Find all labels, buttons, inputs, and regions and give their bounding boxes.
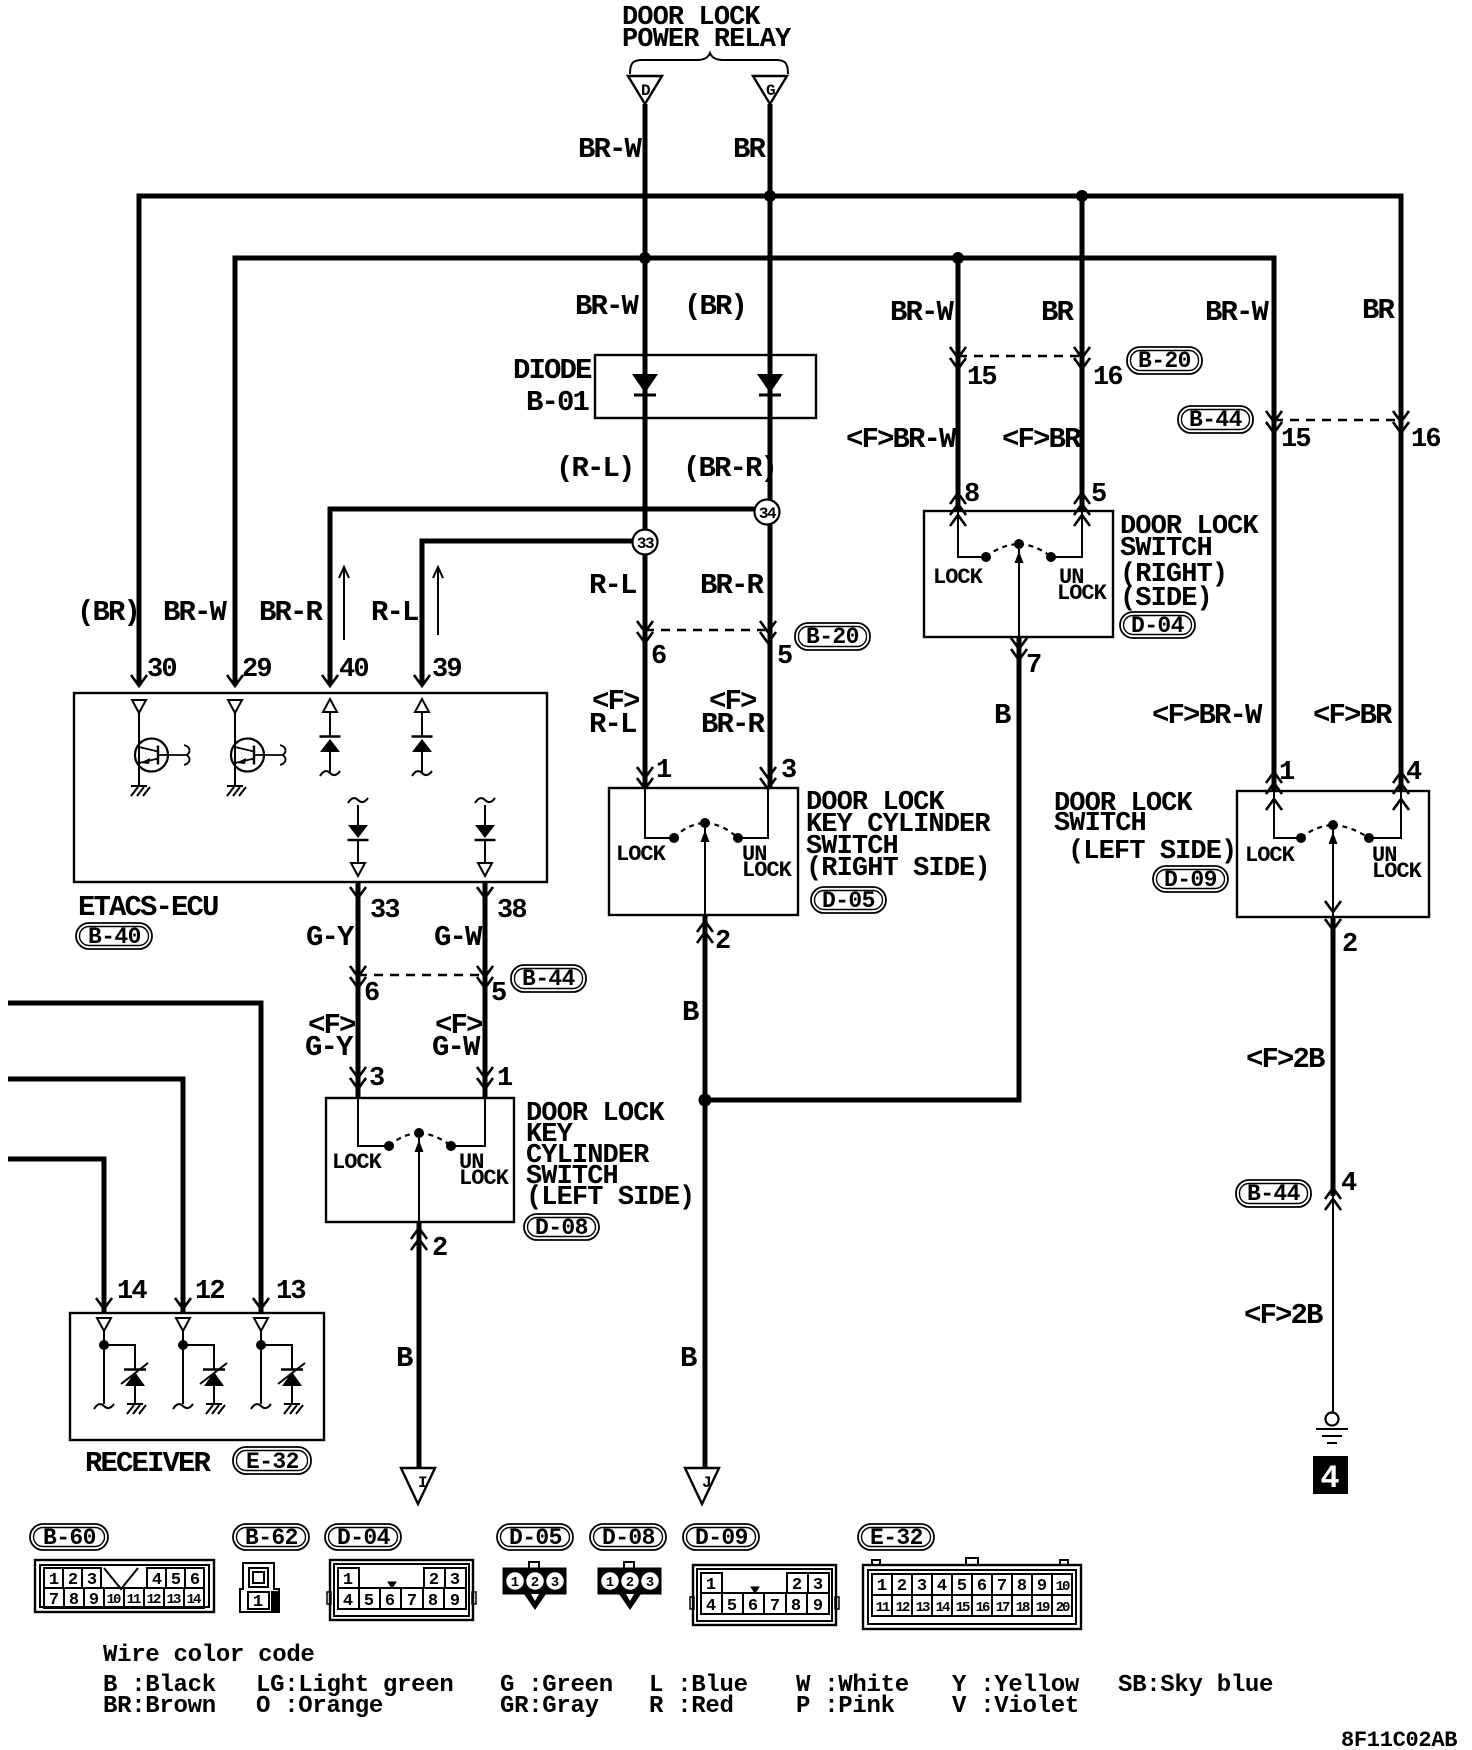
svg-text:5: 5 xyxy=(957,1577,967,1596)
svg-text:D-05: D-05 xyxy=(509,1525,562,1551)
svg-text:G: G xyxy=(766,82,775,100)
svg-text:5: 5 xyxy=(364,1592,374,1611)
svg-text:B: B xyxy=(682,996,699,1029)
svg-text:30: 30 xyxy=(147,655,176,685)
svg-text:11: 11 xyxy=(876,1600,890,1616)
svg-text:15: 15 xyxy=(956,1600,970,1616)
svg-text:G-W: G-W xyxy=(434,921,483,954)
svg-text:10: 10 xyxy=(1056,1579,1070,1595)
svg-text:Wire color code: Wire color code xyxy=(103,1642,315,1669)
svg-text:2: 2 xyxy=(432,1234,447,1264)
svg-text:6: 6 xyxy=(977,1577,987,1596)
svg-text:2: 2 xyxy=(1342,930,1357,960)
svg-text:8: 8 xyxy=(428,1592,438,1611)
svg-text:19: 19 xyxy=(1036,1600,1050,1616)
svg-text:10: 10 xyxy=(107,1592,121,1608)
svg-text:9: 9 xyxy=(1037,1577,1047,1596)
svg-text:O :Orange: O :Orange xyxy=(256,1693,383,1720)
svg-text:D-08: D-08 xyxy=(602,1525,655,1551)
svg-text:3: 3 xyxy=(450,1571,460,1590)
svg-text:B: B xyxy=(680,1342,697,1375)
svg-text:B-60: B-60 xyxy=(43,1525,96,1551)
svg-text:3: 3 xyxy=(917,1577,927,1596)
svg-text:8: 8 xyxy=(964,480,979,510)
svg-text:1: 1 xyxy=(656,756,672,786)
svg-text:ETACS-ECU: ETACS-ECU xyxy=(78,891,218,924)
svg-text:LOCK: LOCK xyxy=(459,1166,510,1191)
svg-text:39: 39 xyxy=(432,655,461,685)
svg-text:5: 5 xyxy=(777,642,792,672)
svg-text:R :Red: R :Red xyxy=(649,1693,734,1720)
svg-text:BR-W: BR-W xyxy=(890,296,955,329)
svg-text:5: 5 xyxy=(491,979,506,1009)
svg-text:<F>BR-W: <F>BR-W xyxy=(1152,699,1263,732)
svg-text:8: 8 xyxy=(69,1591,79,1610)
svg-text:2: 2 xyxy=(68,1571,78,1590)
svg-text:E-32: E-32 xyxy=(870,1525,923,1551)
svg-text:LOCK: LOCK xyxy=(332,1150,383,1175)
svg-text:B-44: B-44 xyxy=(522,966,576,992)
svg-text:<F>BR: <F>BR xyxy=(1002,423,1082,456)
svg-text:5: 5 xyxy=(1091,480,1106,510)
svg-text:3: 3 xyxy=(551,1575,559,1591)
svg-text:E-32: E-32 xyxy=(246,1449,299,1475)
svg-text:1: 1 xyxy=(511,1575,519,1591)
svg-text:R-L: R-L xyxy=(589,708,636,741)
svg-text:14: 14 xyxy=(936,1600,950,1616)
svg-text:BR-W: BR-W xyxy=(1205,296,1270,329)
svg-text:33: 33 xyxy=(637,535,654,553)
svg-text:(LEFT SIDE): (LEFT SIDE) xyxy=(526,1183,694,1213)
svg-text:(BR-R): (BR-R) xyxy=(683,452,776,485)
svg-text:1: 1 xyxy=(49,1571,59,1590)
svg-text:B-44: B-44 xyxy=(1247,1181,1301,1207)
svg-text:GR:Gray: GR:Gray xyxy=(500,1693,599,1720)
svg-text:7: 7 xyxy=(997,1577,1007,1596)
svg-text:1: 1 xyxy=(343,1571,353,1590)
svg-text:BR-W: BR-W xyxy=(578,133,643,166)
svg-text:G-Y: G-Y xyxy=(306,921,355,954)
svg-text:B-20: B-20 xyxy=(806,624,859,650)
svg-text:D-09: D-09 xyxy=(1164,867,1217,893)
svg-text:2: 2 xyxy=(715,927,730,957)
svg-text:13: 13 xyxy=(276,1277,305,1307)
svg-text:LOCK: LOCK xyxy=(742,858,793,883)
svg-text:1: 1 xyxy=(253,1593,263,1612)
svg-text:33: 33 xyxy=(370,896,399,926)
svg-text:G-W: G-W xyxy=(432,1031,481,1064)
svg-text:B-20: B-20 xyxy=(1138,348,1191,374)
svg-text:13: 13 xyxy=(916,1600,930,1616)
svg-text:3: 3 xyxy=(369,1064,384,1094)
svg-text:BR:Brown: BR:Brown xyxy=(103,1693,216,1720)
svg-text:12: 12 xyxy=(195,1277,224,1307)
svg-text:BR-R: BR-R xyxy=(701,708,766,741)
svg-text:V :Violet: V :Violet xyxy=(952,1693,1079,1720)
svg-text:BR-R: BR-R xyxy=(700,569,765,602)
svg-text:<F>2B: <F>2B xyxy=(1244,1299,1323,1332)
svg-text:6: 6 xyxy=(364,979,379,1009)
svg-text:BR-W: BR-W xyxy=(163,596,228,629)
svg-text:LOCK: LOCK xyxy=(1372,859,1423,884)
svg-text:34: 34 xyxy=(759,505,777,523)
svg-text:16: 16 xyxy=(976,1600,990,1616)
svg-text:POWER RELAY: POWER RELAY xyxy=(622,25,792,55)
svg-text:4: 4 xyxy=(937,1577,947,1596)
svg-text:J: J xyxy=(702,1474,710,1492)
svg-text:B: B xyxy=(994,699,1011,732)
svg-text:1: 1 xyxy=(877,1577,887,1596)
svg-text:1: 1 xyxy=(497,1064,513,1094)
svg-text:4: 4 xyxy=(1341,1169,1357,1199)
svg-text:B: B xyxy=(396,1342,413,1375)
svg-text:(BR): (BR) xyxy=(684,290,746,323)
svg-text:RECEIVER: RECEIVER xyxy=(85,1447,212,1480)
svg-text:BR: BR xyxy=(733,133,767,166)
svg-text:29: 29 xyxy=(242,655,271,685)
svg-text:(RIGHT SIDE): (RIGHT SIDE) xyxy=(806,854,990,884)
svg-text:8: 8 xyxy=(1017,1577,1027,1596)
svg-text:LOCK: LOCK xyxy=(616,842,667,867)
svg-text:<F>2B: <F>2B xyxy=(1246,1043,1325,1076)
svg-text:14: 14 xyxy=(187,1592,201,1608)
svg-text:B-01: B-01 xyxy=(526,386,590,419)
svg-text:6: 6 xyxy=(651,642,666,672)
svg-text:38: 38 xyxy=(497,896,526,926)
svg-text:2: 2 xyxy=(531,1575,539,1591)
svg-text:BR-R: BR-R xyxy=(259,596,324,629)
svg-text:6: 6 xyxy=(190,1571,200,1590)
svg-text:15: 15 xyxy=(1281,425,1310,455)
svg-text:D-08: D-08 xyxy=(535,1215,588,1241)
svg-text:DIODE: DIODE xyxy=(513,354,592,387)
svg-text:BR-W: BR-W xyxy=(575,290,640,323)
svg-text:3: 3 xyxy=(781,756,796,786)
svg-text:14: 14 xyxy=(117,1277,147,1307)
svg-text:R-L: R-L xyxy=(589,569,636,602)
svg-text:9: 9 xyxy=(89,1591,99,1610)
svg-text:D-09: D-09 xyxy=(695,1525,748,1551)
svg-text:D: D xyxy=(641,82,650,100)
svg-text:<F>BR: <F>BR xyxy=(1313,699,1393,732)
svg-text:16: 16 xyxy=(1093,363,1122,393)
svg-text:5: 5 xyxy=(171,1571,181,1590)
svg-text:18: 18 xyxy=(1016,1600,1030,1616)
svg-text:3: 3 xyxy=(87,1571,97,1590)
svg-text:BR: BR xyxy=(1041,296,1075,329)
svg-text:D-04: D-04 xyxy=(337,1525,391,1551)
svg-text:1: 1 xyxy=(1279,758,1295,788)
svg-text:SB:Sky blue: SB:Sky blue xyxy=(1118,1672,1273,1699)
svg-text:40: 40 xyxy=(339,655,368,685)
svg-text:12: 12 xyxy=(896,1600,910,1616)
svg-text:LOCK: LOCK xyxy=(1057,581,1108,606)
svg-text:6: 6 xyxy=(385,1592,395,1611)
svg-text:I: I xyxy=(418,1474,427,1492)
svg-text:D-05: D-05 xyxy=(822,888,875,914)
svg-text:B-62: B-62 xyxy=(245,1525,298,1551)
svg-text:15: 15 xyxy=(967,363,996,393)
svg-text:8F11C02AB: 8F11C02AB xyxy=(1341,1728,1457,1750)
svg-text:20: 20 xyxy=(1056,1600,1070,1616)
svg-text:P :Pink: P :Pink xyxy=(796,1693,895,1720)
svg-text:(SIDE): (SIDE) xyxy=(1120,584,1212,614)
svg-text:7: 7 xyxy=(407,1592,417,1611)
svg-text:<F>BR-W: <F>BR-W xyxy=(846,423,957,456)
svg-text:(LEFT SIDE): (LEFT SIDE) xyxy=(1068,837,1236,867)
svg-text:13: 13 xyxy=(167,1592,181,1608)
svg-text:B-44: B-44 xyxy=(1189,407,1243,433)
svg-text:9: 9 xyxy=(450,1592,460,1611)
svg-text:BR: BR xyxy=(1362,294,1396,327)
svg-text:17: 17 xyxy=(996,1600,1010,1616)
svg-text:G-Y: G-Y xyxy=(305,1031,354,1064)
svg-text:B-40: B-40 xyxy=(88,924,141,950)
svg-text:12: 12 xyxy=(147,1592,161,1608)
svg-text:7: 7 xyxy=(49,1591,59,1610)
svg-text:2: 2 xyxy=(429,1571,439,1590)
svg-text:16: 16 xyxy=(1411,425,1440,455)
svg-text:4: 4 xyxy=(1320,1460,1339,1497)
svg-text:(R-L): (R-L) xyxy=(556,452,634,485)
svg-text:2: 2 xyxy=(897,1577,907,1596)
svg-text:D-04: D-04 xyxy=(1131,613,1185,639)
svg-text:SWITCH: SWITCH xyxy=(1054,809,1146,839)
svg-text:4: 4 xyxy=(343,1592,353,1611)
svg-text:4: 4 xyxy=(1406,758,1422,788)
svg-text:11: 11 xyxy=(127,1592,141,1608)
svg-text:7: 7 xyxy=(1026,651,1041,681)
svg-text:4: 4 xyxy=(152,1571,162,1590)
svg-text:LOCK: LOCK xyxy=(933,565,984,590)
svg-text:(BR): (BR) xyxy=(77,596,139,629)
svg-text:R-L: R-L xyxy=(371,596,418,629)
svg-text:LOCK: LOCK xyxy=(1245,843,1296,868)
